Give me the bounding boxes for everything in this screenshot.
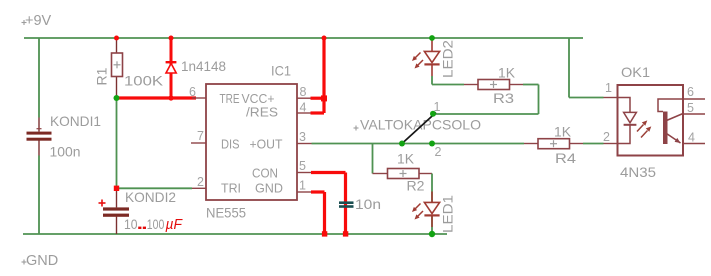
- OK1 pin 2 stub: [604, 143, 618, 145]
- IC1 pin 7 stub: [191, 142, 206, 144]
- wire left vertical from +9V to KONDI1: [38, 38, 40, 118]
- svg-text:2: 2: [197, 175, 204, 189]
- svg-text:6: 6: [687, 85, 694, 99]
- svg-text:1: 1: [605, 81, 612, 95]
- svg-text:DIS: DIS: [221, 137, 240, 152]
- svg-text:2: 2: [435, 145, 442, 159]
- IC1 pin 1 stub: [297, 191, 311, 193]
- svg-text:VALTOKAPCSOLO: VALTOKAPCSOLO: [360, 117, 481, 133]
- svg-text:IC1: IC1: [271, 63, 291, 79]
- svg-text:LED1: LED1: [440, 195, 456, 233]
- svg-text:R4: R4: [555, 150, 576, 166]
- resistor R2: [373, 169, 433, 179]
- optocoupler OK1 box: [618, 85, 684, 156]
- svg-text:1K: 1K: [397, 151, 415, 167]
- wire R2 to LED1: [431, 174, 433, 203]
- OK1 pin 6 stub: [683, 98, 705, 100]
- wire VCC+/RES highlighted: pin8+pin4 up to +9V rail: [311, 38, 325, 113]
- junction square red GND rail pin1: [322, 231, 327, 236]
- wire branch down to R2: [372, 144, 374, 174]
- wire +9V down to OK1 pin1: [569, 38, 604, 98]
- junction square red TRI/KONDI2: [114, 186, 119, 191]
- switch lever (black): [402, 113, 436, 144]
- svg-text:OK1: OK1: [621, 64, 650, 80]
- svg-text:KONDI2: KONDI2: [125, 189, 176, 205]
- svg-text:7: 7: [197, 129, 204, 143]
- wire +9V top rail: [24, 37, 583, 39]
- svg-text:TRI: TRI: [221, 181, 241, 196]
- IC1 pin 5 stub: [297, 172, 311, 174]
- capacitor 10n (on CON-GND wire): [339, 201, 354, 207]
- svg-text:1: 1: [299, 179, 306, 193]
- svg-text:R3: R3: [493, 90, 514, 106]
- IC1 pin 4 stub: [297, 112, 311, 114]
- IC1 pin 6 stub: [192, 97, 206, 99]
- junction square red GND rail CON: [343, 231, 348, 236]
- wire OUT from pin3 to switch area: [312, 143, 525, 145]
- svg-text:+OUT: +OUT: [250, 137, 283, 152]
- svg-text:+9V: +9V: [25, 13, 52, 29]
- svg-text:5: 5: [299, 159, 306, 173]
- svg-text:R2: R2: [407, 178, 425, 194]
- OK1 pin 1 stub: [604, 97, 618, 99]
- IC1 pin 8 stub: [297, 97, 311, 99]
- junction dot green switch node 1: [430, 111, 436, 117]
- IC1 pin 3 stub: [297, 143, 312, 145]
- svg-text:4: 4: [688, 131, 695, 145]
- wire CON highlighted: pin5 right then down to GND rail: [311, 173, 346, 235]
- LED LED1: [412, 192, 440, 228]
- OK1 internal light arrows: [637, 120, 651, 137]
- wire R3 return to switch node 1: [433, 85, 539, 115]
- capacitor KONDI1: [27, 118, 52, 156]
- svg-text:10n: 10n: [355, 196, 381, 212]
- wire LED2 bottom to R3: [432, 76, 464, 85]
- svg-text:GND: GND: [255, 181, 283, 196]
- svg-text:/RES: /RES: [246, 105, 278, 120]
- IC1 NE555 box: [206, 84, 297, 200]
- wire TRI: node to pin2 of IC1: [117, 187, 193, 189]
- OK1 pin 4 stub: [683, 143, 705, 145]
- svg-text:TRE: TRE: [220, 91, 240, 106]
- OK1 pin 5 stub: [683, 113, 705, 115]
- svg-text:5: 5: [687, 101, 694, 115]
- junction dot red rail VCC: [322, 36, 327, 41]
- net +9V label: [22, 20, 27, 25]
- svg-text:LED2: LED2: [440, 40, 456, 78]
- svg-text:KONDI1: KONDI1: [50, 113, 101, 129]
- LED LED2: [412, 39, 440, 76]
- svg-text:8: 8: [300, 85, 307, 99]
- junction dot green R1 bottom node: [114, 95, 120, 101]
- svg-text:2: 2: [603, 130, 610, 144]
- junction dot red rail R1: [114, 36, 119, 41]
- capacitor KONDI2 (polarized): [99, 188, 130, 234]
- junction dot red diode bottom: [168, 95, 173, 100]
- OK1 phototransistor: [658, 99, 683, 144]
- junction dot green switch common: [399, 141, 405, 147]
- wire OUT after R4 to OK1 pin2: [583, 143, 604, 145]
- svg-text:100K: 100K: [124, 73, 164, 89]
- net GND label: [22, 260, 27, 265]
- svg-text:3: 3: [299, 130, 306, 144]
- resistor R4: [524, 139, 583, 149]
- svg-text:6: 6: [189, 85, 196, 99]
- OK1 internal LED: [618, 98, 630, 144]
- svg-text:100: 100: [147, 216, 165, 232]
- svg-text:CON: CON: [252, 166, 278, 181]
- svg-text:10: 10: [124, 216, 138, 232]
- IC1 pin 2 stub: [192, 187, 206, 189]
- svg-text:4N35: 4N35: [620, 164, 656, 180]
- svg-text:100n: 100n: [50, 144, 81, 160]
- junction dot green rail LED2: [429, 35, 435, 41]
- net label VALTOKAPCSOLO: [354, 126, 359, 131]
- wire GND bottom rail: [23, 233, 447, 235]
- svg-text:4: 4: [300, 101, 307, 115]
- diode 1n4148 (red highlighted vertical): [166, 38, 177, 98]
- wire LED1 to GND rail: [431, 217, 433, 235]
- svg-text:NE555: NE555: [206, 205, 246, 221]
- junction dot green switch node 2: [429, 141, 435, 147]
- junction dot red rail diode top: [169, 36, 174, 41]
- IC1 pin labels inside: [220, 91, 284, 196]
- svg-text:GND: GND: [26, 253, 58, 269]
- svg-text:µF: µF: [166, 217, 184, 233]
- junction dot green GND rail LED1: [429, 231, 435, 237]
- junction square pin8 vert: [321, 95, 327, 101]
- svg-text:R1: R1: [94, 67, 110, 85]
- svg-text:1K: 1K: [498, 65, 516, 81]
- wire node R1-bottom vertical down to KONDI2: [116, 98, 118, 188]
- wire TRE highlighted (red) from node to pin6: [117, 96, 197, 99]
- wire KONDI1 to GND rail: [38, 156, 40, 235]
- svg-text:1K: 1K: [554, 124, 572, 140]
- svg-text:1n4148: 1n4148: [181, 58, 226, 74]
- wire GND pin1 highlighted: right then down to GND rail: [311, 192, 325, 234]
- resistor R1: [112, 38, 123, 98]
- resistor R3: [464, 80, 523, 90]
